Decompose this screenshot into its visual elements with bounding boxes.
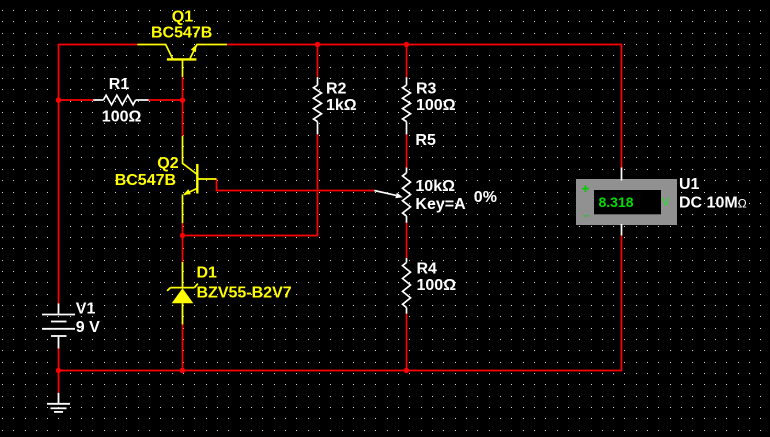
svg-text:BC547B: BC547B [115, 172, 176, 189]
svg-text:9 V: 9 V [76, 319, 100, 336]
wire D1 to bottom rail [182, 325, 184, 372]
junction R4 bottom rail [404, 368, 409, 373]
multimeter U1 body [576, 179, 677, 225]
transistor Q2 [183, 136, 217, 223]
multimeter U1 lead top [621, 168, 623, 181]
multimeter U1 display [594, 190, 661, 214]
svg-text:Q1: Q1 [172, 8, 193, 25]
wire battery to ground node [58, 349, 60, 372]
zener diode D1 [167, 262, 198, 325]
svg-text:R5: R5 [415, 132, 436, 149]
wire R4 to bottom rail [406, 314, 408, 371]
wire top rail left segment [59, 44, 138, 46]
wire R3 top [406, 44, 408, 77]
resistor R3 [403, 77, 411, 134]
junction node left-bottom [56, 368, 61, 373]
multimeter U1 lead bottom [621, 224, 623, 236]
svg-text:0%: 0% [474, 189, 497, 206]
wire R2 top [317, 44, 319, 77]
svg-text:R1: R1 [109, 76, 130, 93]
wire left rail [58, 44, 60, 304]
resistor R2 [314, 77, 322, 134]
junction R2 top rail [315, 42, 320, 47]
wire R1 left [59, 99, 94, 101]
wire R1 right [149, 99, 183, 101]
svg-text:R4: R4 [417, 261, 438, 278]
transistor Q1 [137, 45, 227, 78]
svg-text:R2: R2 [326, 80, 347, 97]
svg-text:D1: D1 [197, 265, 218, 282]
wire Q2 emitter to node B [182, 223, 184, 235]
svg-text:Q2: Q2 [157, 155, 178, 172]
ground [47, 393, 70, 412]
wire ground stub [58, 371, 60, 393]
svg-text:1kΩ: 1kΩ [326, 97, 357, 114]
resistor R1 [93, 95, 148, 105]
potentiometer R5 [374, 168, 410, 223]
wire node A vertical Q1 base to Q2 collector [182, 77, 184, 136]
svg-text:8.318: 8.318 [599, 194, 634, 210]
junction node left-R1 [56, 98, 61, 103]
wire top rail right segment [227, 44, 622, 172]
svg-text:100Ω: 100Ω [416, 97, 456, 114]
svg-text:R3: R3 [416, 80, 437, 97]
svg-text:DC 10MΩ: DC 10MΩ [679, 195, 747, 212]
svg-text:V1: V1 [76, 301, 96, 318]
wire Q2 base to R5 wiper [217, 179, 375, 191]
junction R3 top rail [404, 42, 409, 47]
svg-text:U1: U1 [679, 176, 700, 193]
resistor R4 [403, 258, 411, 314]
wire node B to D1 [182, 236, 184, 263]
junction node D1 bottom rail [180, 368, 185, 373]
junction node B [180, 233, 185, 238]
svg-text:10kΩ: 10kΩ [415, 178, 455, 195]
battery V1 [42, 303, 75, 348]
junction node A R1 [180, 98, 185, 103]
svg-text:BC547B: BC547B [151, 25, 212, 42]
multimeter U1 plus terminal [582, 185, 589, 192]
svg-text:100Ω: 100Ω [417, 277, 457, 294]
wire R2 bottom to node B [183, 134, 318, 235]
svg-text:Key=A: Key=A [415, 196, 466, 213]
wire R3 to R5 [406, 134, 408, 167]
svg-text:100Ω: 100Ω [102, 108, 142, 125]
svg-text:V: V [662, 195, 670, 209]
multimeter U1 minus terminal [583, 215, 590, 217]
wire bottom rail [59, 235, 622, 371]
svg-text:BZV55-B2V7: BZV55-B2V7 [197, 284, 292, 301]
wire R5 to R4 [406, 223, 408, 258]
